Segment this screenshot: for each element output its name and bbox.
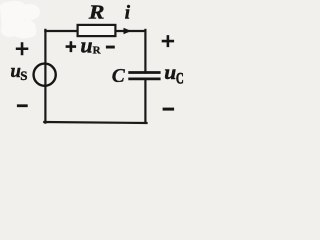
wire: right vertical upper (corner to capacitor top plate) xyxy=(144,30,146,73)
svg-text:R: R xyxy=(93,45,102,57)
capacitor C bottom plate xyxy=(128,78,160,81)
svg-text:i: i xyxy=(125,3,131,24)
minus sign (source bottom) xyxy=(17,104,28,107)
wire: right vertical lower (capacitor bottom plate to corner) xyxy=(144,79,146,123)
svg-text:u: u xyxy=(164,60,176,84)
wire: top-left horizontal (source to resistor) xyxy=(45,30,77,32)
wire: bottom horizontal xyxy=(44,122,146,123)
svg-text:C: C xyxy=(176,69,184,87)
wire: left vertical through source xyxy=(44,30,46,123)
plus sign (uR left) xyxy=(66,41,77,52)
current i arrowhead xyxy=(124,28,132,34)
resistor R box xyxy=(78,25,116,36)
svg-text:S: S xyxy=(20,68,27,83)
svg-text:R: R xyxy=(88,1,105,23)
wire: resistor to right corner xyxy=(116,30,146,32)
svg-text:C: C xyxy=(112,66,126,87)
voltage source uS (circle) xyxy=(34,64,56,86)
svg-text:u: u xyxy=(80,33,92,58)
plus sign (source top) xyxy=(16,42,28,55)
background paper xyxy=(0,0,194,132)
minus sign (capacitor bottom) xyxy=(163,108,175,111)
minus sign (uR right) xyxy=(106,46,115,49)
capacitor C top plate xyxy=(128,71,160,74)
watermark blob top-left xyxy=(0,1,40,39)
plus sign (capacitor top) xyxy=(162,35,174,47)
